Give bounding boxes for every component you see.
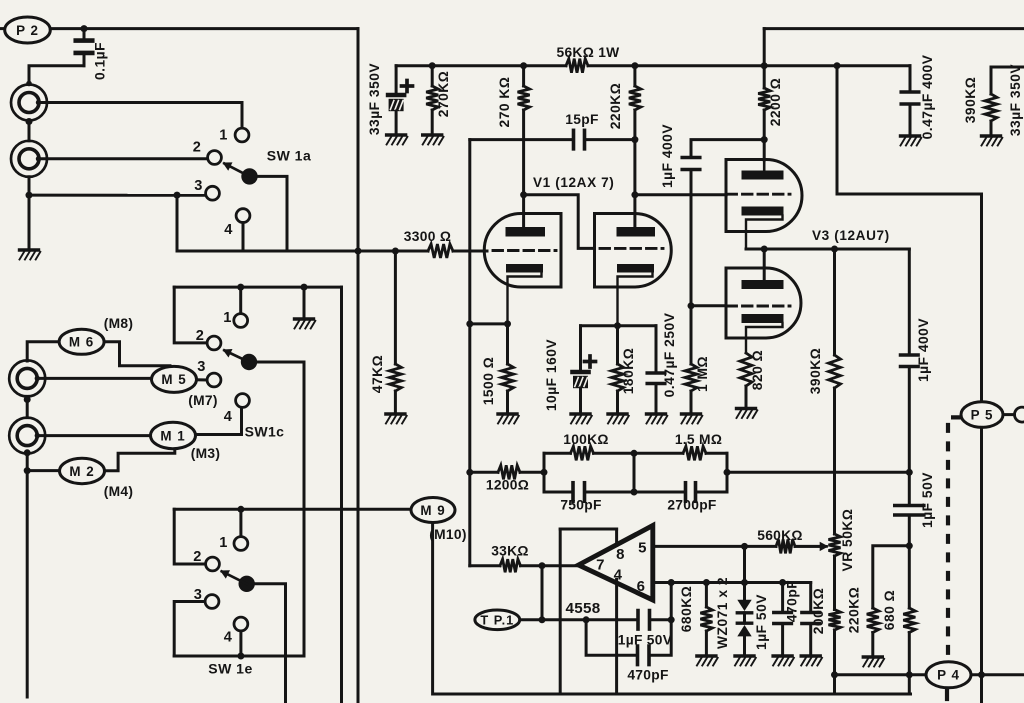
potentiometer VR 50Kohm <box>829 534 841 610</box>
wire pin5 output line <box>653 545 823 548</box>
SW1c contact 3 <box>207 373 221 387</box>
triode V3b plate <box>742 280 784 289</box>
capacitor 1uF 50V right <box>895 506 924 516</box>
label SW1c <box>245 424 285 440</box>
svg-text:560KΩ: 560KΩ <box>757 528 803 543</box>
SW1c contact 1 <box>234 314 248 328</box>
node bus x=837 <box>834 62 841 69</box>
node 33K/TP1 riser <box>539 562 546 569</box>
wire jack shells J3-J4 <box>26 396 29 417</box>
wire P4 left line <box>835 673 927 676</box>
ground 180K <box>608 414 629 424</box>
node pin6/1uF50V <box>779 579 786 586</box>
SW1c contact 4 <box>236 394 250 408</box>
wire SW1e left lower <box>174 602 205 657</box>
triode V1b cathode <box>617 264 654 326</box>
node J4 shell <box>24 449 31 456</box>
node pin6/680K <box>703 579 710 586</box>
wire x909 lower <box>908 517 911 608</box>
svg-text:M 9: M 9 <box>420 503 445 518</box>
triode V1a plate <box>506 227 546 237</box>
node J3 shell <box>24 396 31 403</box>
svg-text:1µF 50V: 1µF 50V <box>920 472 935 528</box>
label 390Kohm chain <box>808 348 823 395</box>
triode V1b plate <box>617 227 656 237</box>
wire J2 hot to SW1a contact2 <box>36 156 208 161</box>
resistor 270Kohm first <box>426 66 438 134</box>
jack J4 input <box>9 418 45 454</box>
wire 15pF left <box>470 138 572 141</box>
node pin6/caps riser <box>668 579 675 586</box>
svg-text:4: 4 <box>224 222 233 238</box>
connector M5 <box>152 366 197 392</box>
node box left <box>541 469 548 476</box>
svg-text:220KΩ: 220KΩ <box>847 587 862 634</box>
node chain/P4 line <box>831 671 838 678</box>
node feedback/cathode <box>466 320 473 327</box>
wiper arrow VR <box>795 542 829 551</box>
triode V1a grid <box>493 249 556 252</box>
svg-text:8: 8 <box>616 546 625 563</box>
ground 0.47uF 400V <box>901 136 922 146</box>
label WZ071 x2 <box>715 577 730 649</box>
wire SW1c pole line <box>256 362 304 656</box>
svg-text:WZ071 x 2: WZ071 x 2 <box>715 577 730 649</box>
svg-text:1: 1 <box>219 535 227 551</box>
svg-text:SW 1a: SW 1a <box>267 148 312 164</box>
connector M9 <box>411 498 455 523</box>
svg-text:1µF 400V: 1µF 400V <box>916 318 931 382</box>
wire P4 right line <box>971 673 1024 676</box>
wire 1200 left <box>470 471 498 474</box>
wire contact3 line <box>29 194 206 197</box>
triode V1a cathode <box>506 264 543 324</box>
label 220Kohm right <box>847 587 862 634</box>
node SW1e contact4 stem <box>237 653 244 660</box>
feedback box edges <box>544 453 727 492</box>
wire M2 right step <box>105 449 175 471</box>
svg-text:1µF 50V: 1µF 50V <box>754 594 769 650</box>
svg-text:5: 5 <box>638 540 647 557</box>
svg-text:820 Ω: 820 Ω <box>750 350 765 390</box>
label 680 ohm <box>882 590 897 630</box>
svg-text:180KΩ: 180KΩ <box>621 348 636 395</box>
svg-text:220KΩ: 220KΩ <box>608 83 623 130</box>
svg-text:4: 4 <box>614 566 623 583</box>
wire SW1e top line to M9 <box>174 508 411 511</box>
label SW1e pin 1 <box>219 535 227 551</box>
connector P5 <box>961 402 1003 428</box>
label V3 (12AU7) <box>812 228 890 243</box>
resistor 680Kohm <box>700 583 712 655</box>
label 1uF 50V right <box>920 472 935 528</box>
svg-text:0.47µF 250V: 0.47µF 250V <box>662 312 677 397</box>
dashed link P5 to P4 <box>948 417 961 657</box>
SW1a contact 4 <box>236 209 250 223</box>
SW1e contact 3 <box>205 595 219 609</box>
wire SW1a pole to bus <box>257 176 288 251</box>
resistor 100Kohm <box>571 446 594 460</box>
SW1e wiper arrow <box>220 570 247 584</box>
wire box bottom <box>544 491 727 494</box>
capacitor 0.1uF <box>76 41 93 53</box>
wire V1b plate line to V3 grid <box>635 193 726 196</box>
resistor 33Kohm <box>500 559 521 572</box>
svg-text:47KΩ: 47KΩ <box>370 355 385 393</box>
node 1uF400V/1M/V3grid <box>688 302 695 309</box>
node V1b cathode <box>614 322 621 329</box>
node feedback/x909 <box>906 469 913 476</box>
svg-text:270 KΩ: 270 KΩ <box>497 77 512 128</box>
triode V3a cathode <box>742 207 784 250</box>
wire B+ bus y=65.7 <box>396 64 910 67</box>
node SW1c contact1 stem <box>237 284 244 291</box>
capacitor 470pF shunt <box>802 583 820 655</box>
node SW1c ground stub <box>301 284 308 291</box>
node grid-line / left-bus <box>355 248 362 255</box>
resistor 2200ohm <box>758 29 770 160</box>
label 1uF 50V shunt <box>754 594 769 650</box>
wire SW1e bottom line <box>174 655 304 658</box>
node bus/33uF <box>0 0 1 1</box>
label SW 1e <box>208 661 253 677</box>
SW1c contact 2 <box>207 336 221 350</box>
svg-text:1µF 50V: 1µF 50V <box>618 633 673 648</box>
dashed link below P4 <box>945 689 949 701</box>
wire P5 column lower <box>980 427 983 703</box>
svg-text:(M8): (M8) <box>104 316 134 331</box>
wire M6 left <box>27 342 59 361</box>
label SW1e pin 4 <box>224 630 233 646</box>
ground 0.47uF 250V <box>647 414 668 424</box>
triode V1b grid <box>600 247 663 250</box>
label 33uF 350V right edge <box>1008 64 1023 137</box>
svg-text:390KΩ: 390KΩ <box>808 348 823 395</box>
resistor 220Kohm <box>629 66 641 227</box>
label 1uF 400V left <box>660 124 675 188</box>
triode V3a envelope <box>726 160 802 232</box>
wire M6 right step <box>104 342 170 366</box>
label 1500 ohm <box>481 357 496 406</box>
label 33uF 350V <box>367 63 382 136</box>
node box mid top <box>631 450 638 457</box>
svg-text:1200Ω: 1200Ω <box>486 478 529 493</box>
SW1e contact 1 <box>234 537 248 551</box>
resistor 270Kohm second <box>518 66 530 227</box>
resistor 680ohm <box>903 608 915 694</box>
label 47Kohm <box>370 355 385 393</box>
wire caps to pin6 riser <box>651 583 671 656</box>
label SW 1a <box>267 148 312 164</box>
ground 1M <box>682 414 703 424</box>
ground 470pF shunt <box>801 656 822 666</box>
label 470pF shunt <box>785 580 800 622</box>
capacitor 1uF 400V right <box>901 355 919 367</box>
capacitor 1uF 50V coupling <box>638 611 650 630</box>
node 2200/plate junction <box>761 136 768 143</box>
ground 1500 <box>498 414 519 424</box>
zener diodes WZ071 x2 <box>737 546 751 654</box>
label 100Kohm <box>563 432 609 447</box>
wire V3 lower grid <box>691 304 725 307</box>
svg-text:2700pF: 2700pF <box>667 498 716 513</box>
label (M8) <box>104 316 134 331</box>
connector P4 <box>926 662 971 688</box>
label 1.5Mohm <box>675 432 722 447</box>
svg-text:M 2: M 2 <box>69 464 94 479</box>
label 560Kohm <box>757 528 803 543</box>
plus 10uF <box>585 356 596 367</box>
capacitor 0.47uF 400V <box>901 66 919 135</box>
svg-text:V3 (12AU7): V3 (12AU7) <box>812 228 890 243</box>
label 1uF 400V right <box>916 318 931 382</box>
wire bus corner to P5 column <box>837 66 982 402</box>
wire x909 mid <box>908 369 911 504</box>
wire SW1a contact4 stem <box>242 223 245 251</box>
label pin 8 <box>616 546 625 563</box>
op-amp supply rails <box>560 529 616 694</box>
svg-text:680KΩ: 680KΩ <box>679 586 694 633</box>
wire M5 to contact3 <box>197 378 208 381</box>
wire SW1c contact1 stem <box>239 287 242 313</box>
label 270Kohm first <box>436 71 451 118</box>
ground 270K-1 <box>423 135 444 145</box>
wire left tall bus x=358 down <box>357 29 360 703</box>
label 0.47uF 400V <box>920 54 935 139</box>
label SW1a pin 4 <box>224 222 233 238</box>
svg-text:1: 1 <box>219 128 227 144</box>
resistor 56Kohm 1W <box>566 59 588 73</box>
label SW1c pin 4 <box>224 409 233 425</box>
wire V3a cathode line <box>746 248 909 251</box>
wire SW1e left upper <box>174 509 205 564</box>
label 1uF 50V coupling <box>618 633 673 648</box>
capacitor 0.1uF leads <box>26 29 84 87</box>
jack J1 input <box>11 85 47 121</box>
triode V1b envelope <box>595 214 672 288</box>
ground 680K <box>697 656 718 666</box>
wire jack J2 shell down to ground <box>28 177 31 250</box>
svg-text:(M7): (M7) <box>188 393 218 408</box>
label 3300 ohm <box>404 229 451 244</box>
resistor 390Kohm chain <box>829 249 841 534</box>
wire x909 column top <box>908 249 911 353</box>
svg-text:750pF: 750pF <box>560 498 601 513</box>
capacitor 1uF 50V shunt <box>774 583 792 655</box>
svg-text:V1 (12AX 7): V1 (12AX 7) <box>533 175 614 190</box>
node P2/0.1uF junction <box>81 25 88 32</box>
svg-text:3300 Ω: 3300 Ω <box>404 229 451 244</box>
resistor 1.5Mohm <box>683 446 706 460</box>
resistor 1Mohm <box>685 364 697 413</box>
resistor 390Kohm top-right <box>985 67 1024 135</box>
connector P2 <box>0 17 50 43</box>
svg-text:2: 2 <box>193 140 201 156</box>
svg-text:470pF: 470pF <box>627 668 668 683</box>
ground 220K right <box>863 657 884 667</box>
svg-text:470pF: 470pF <box>785 580 800 622</box>
label 2200 ohm <box>768 78 783 127</box>
label 1200 ohm <box>486 478 529 493</box>
label 2700pF <box>667 498 716 513</box>
ground zeners <box>735 656 756 666</box>
label 470pF coupling <box>627 668 668 683</box>
svg-text:M 6: M 6 <box>69 335 94 350</box>
node pin6/zener <box>741 579 748 586</box>
plus 33uF <box>402 81 413 92</box>
label (M10) <box>429 527 467 542</box>
wire top-right rail <box>764 27 1024 30</box>
ground 820 <box>737 409 758 419</box>
label pin 5 <box>638 540 647 557</box>
svg-text:1500 Ω: 1500 Ω <box>481 357 496 406</box>
node cathode/390K chain <box>831 246 838 253</box>
node P4/P5 column <box>978 671 985 678</box>
SW1e contact 2 <box>206 557 220 571</box>
label 15pF <box>565 112 598 127</box>
wire 1uF400V bottom <box>690 172 693 365</box>
capacitor 0.47uF 250V <box>647 326 665 413</box>
wire 1200 right <box>520 471 544 474</box>
label SW1e pin 2 <box>193 549 201 565</box>
node pin5/zener riser <box>741 543 748 550</box>
wire contact3 branch down <box>176 195 179 251</box>
wire V1a plate coupling step <box>524 195 595 249</box>
label 56Kohm 1W <box>556 45 620 60</box>
wire V1a cathode to feedback bus <box>470 322 508 325</box>
label 0.47uF 250V <box>662 312 677 397</box>
node shell/contact3 line <box>26 192 33 199</box>
svg-text:4: 4 <box>224 630 233 646</box>
svg-text:T P.1: T P.1 <box>480 612 514 627</box>
connector edge circle <box>1015 407 1024 422</box>
svg-text:680 Ω: 680 Ω <box>882 590 897 630</box>
resistor 1500ohm <box>502 324 514 413</box>
node 15pF/220K wire <box>631 136 638 143</box>
op-amp U1 4558 triangle <box>579 526 653 601</box>
wire SW1e pole line <box>254 584 286 703</box>
wire SW1c ground stub <box>303 287 306 317</box>
label 270Kohm second <box>497 77 512 128</box>
capacitor 470pF coupling <box>638 646 650 665</box>
wire J3 hot to M5 <box>35 376 152 381</box>
wire V1b cathode bus <box>581 324 657 327</box>
triode V1a envelope <box>484 214 561 288</box>
svg-text:1 MΩ: 1 MΩ <box>695 356 710 392</box>
wire feedback right <box>727 471 909 474</box>
wire 470pF lower branch <box>586 620 635 656</box>
label 390Kohm top-right <box>963 77 978 124</box>
SW1c pole <box>242 355 256 369</box>
label SW1e pin 3 <box>194 587 202 603</box>
svg-text:1µF 400V: 1µF 400V <box>660 124 675 188</box>
wire 33K input line <box>470 564 500 567</box>
wire P2 to right bus <box>50 27 358 30</box>
svg-text:33µF 350V: 33µF 350V <box>367 63 382 136</box>
node feedback/1200 <box>466 469 473 476</box>
connector M6 <box>59 329 104 354</box>
ground SW1c <box>295 319 316 329</box>
wire plate junction to 1uF400V <box>691 140 764 155</box>
svg-text:VR 50KΩ: VR 50KΩ <box>840 509 855 572</box>
label SW1a pin 3 <box>194 178 202 194</box>
label (M3) <box>191 446 221 461</box>
wire SW1a bottom / grid line <box>177 250 487 253</box>
label 750pF <box>560 498 601 513</box>
wire 33K to op-amp <box>521 564 578 567</box>
SW1a contact 3 <box>206 186 220 200</box>
ground 47K <box>386 414 407 424</box>
svg-text:56KΩ 1W: 56KΩ 1W <box>556 45 620 60</box>
triode V3b grid <box>727 305 790 308</box>
resistor 220Kohm right <box>867 608 879 656</box>
node V1b plate tap <box>631 191 638 198</box>
wire SW1c left edge <box>174 287 207 343</box>
resistor 560Kohm <box>776 539 795 553</box>
node box right <box>724 469 731 476</box>
capacitor 750pF <box>573 483 585 502</box>
svg-text:10µF 160V: 10µF 160V <box>544 339 559 412</box>
label VR 50Kohm <box>840 509 855 572</box>
svg-text:2: 2 <box>193 549 201 565</box>
wire TP1 riser <box>541 566 544 620</box>
label 1Mohm <box>695 356 710 392</box>
SW1a contact 2 <box>208 151 222 165</box>
wire pin6 line <box>653 581 811 584</box>
resistor 1200ohm <box>498 465 520 479</box>
node SW1e contact1 stem <box>237 506 244 513</box>
svg-text:15pF: 15pF <box>565 112 598 127</box>
node cathode/V3b plate <box>761 246 768 253</box>
svg-text:4: 4 <box>224 409 233 425</box>
resistor 820ohm <box>740 353 752 407</box>
svg-text:1: 1 <box>223 310 231 326</box>
svg-text:1.5 MΩ: 1.5 MΩ <box>675 432 722 447</box>
label 10uF 160V <box>544 339 559 412</box>
node box mid bottom <box>631 489 638 496</box>
wire M2 left <box>27 469 59 472</box>
capacitor 10uF 160V <box>573 326 589 413</box>
label pin 7 <box>596 557 605 574</box>
svg-text:100KΩ: 100KΩ <box>563 432 609 447</box>
wire SW1e contact1 stem <box>239 509 242 536</box>
ground input jacks <box>20 250 41 260</box>
resistor 200Kohm <box>829 610 841 694</box>
wire box top <box>544 452 727 455</box>
node caps riser mid <box>668 616 675 623</box>
label 4558 <box>566 600 601 617</box>
wire M9 down and bottom bus <box>433 523 911 695</box>
svg-text:M 5: M 5 <box>161 372 186 387</box>
node grid-line / 47K <box>392 248 399 255</box>
node bus/220K <box>631 62 638 69</box>
label 220Kohm <box>608 83 623 130</box>
node 2200/bus <box>761 62 768 69</box>
wire J4 shell down <box>26 454 29 697</box>
capacitor 2700pF <box>686 483 696 502</box>
label (M7) <box>188 393 218 408</box>
svg-text:P 5: P 5 <box>971 407 994 422</box>
triode V3b cathode <box>742 314 784 353</box>
label (M4) <box>104 484 134 499</box>
node x909/220K <box>906 542 913 549</box>
jack J3 input <box>9 360 45 396</box>
ground 33uF <box>387 135 408 145</box>
capacitor 33uF 350V <box>388 66 404 134</box>
label 200Kohm <box>811 588 826 635</box>
node x909/P4 line <box>906 671 913 678</box>
svg-text:2: 2 <box>196 328 204 344</box>
